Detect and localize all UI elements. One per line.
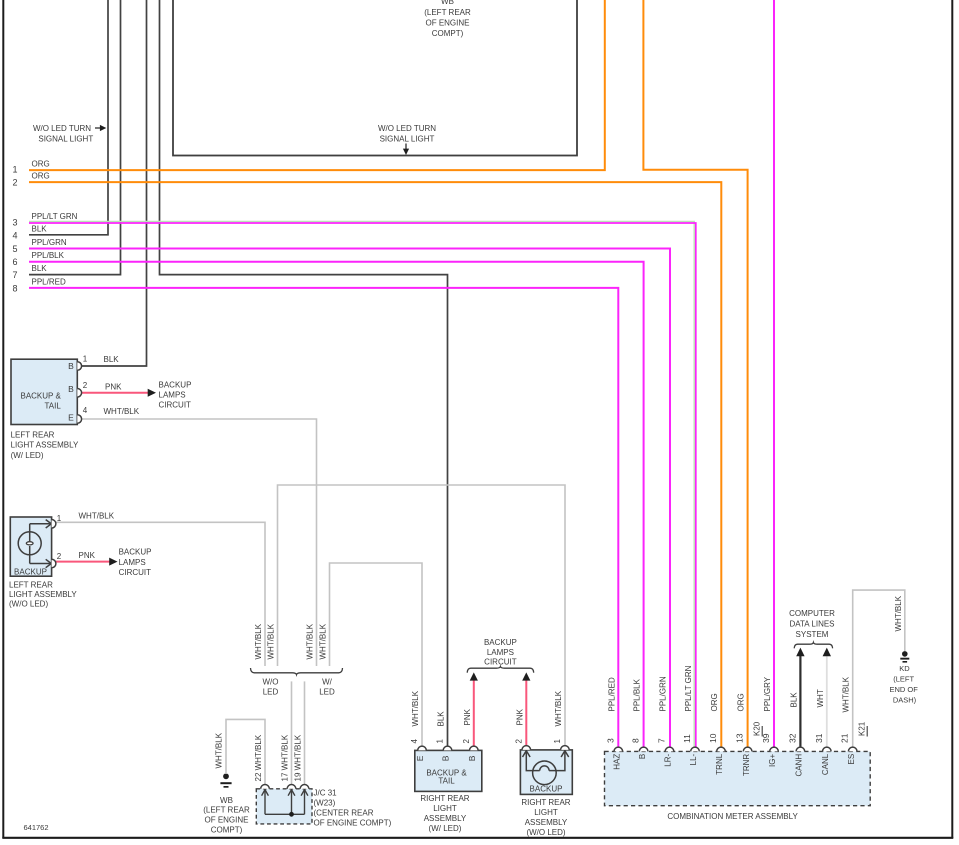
- svg-text:ORG: ORG: [710, 693, 719, 711]
- svg-text:ORG: ORG: [32, 172, 50, 181]
- svg-text:PPL/BLK: PPL/BLK: [633, 678, 642, 711]
- svg-text:(W/ LED): (W/ LED): [429, 824, 462, 833]
- svg-text:CANL: CANL: [821, 753, 830, 775]
- svg-text:HAZ: HAZ: [613, 754, 622, 770]
- svg-text:(CENTER REAR: (CENTER REAR: [314, 809, 374, 818]
- svg-text:BACKUP: BACKUP: [119, 548, 152, 557]
- svg-text:WHT/BLK: WHT/BLK: [894, 595, 903, 631]
- svg-text:COMPUTER: COMPUTER: [789, 609, 835, 618]
- svg-text:BACKUP &: BACKUP &: [20, 391, 61, 400]
- svg-text:ORG: ORG: [737, 693, 746, 711]
- svg-text:WHT: WHT: [816, 689, 825, 707]
- svg-text:WHT/BLK: WHT/BLK: [411, 690, 420, 726]
- svg-text:BLK: BLK: [32, 224, 48, 233]
- svg-text:DATA LINES: DATA LINES: [789, 620, 834, 629]
- svg-text:W/O LED TURN: W/O LED TURN: [33, 124, 91, 133]
- svg-text:3: 3: [605, 738, 615, 743]
- svg-text:2: 2: [514, 739, 523, 744]
- svg-text:BLK: BLK: [789, 692, 798, 708]
- svg-text:BLK: BLK: [104, 355, 120, 364]
- svg-text:CANH: CANH: [795, 754, 804, 777]
- svg-text:KD: KD: [899, 664, 910, 673]
- svg-text:LR-: LR-: [664, 753, 673, 766]
- svg-text:1: 1: [57, 514, 62, 523]
- svg-text:LED: LED: [263, 688, 279, 697]
- svg-text:TAIL: TAIL: [44, 402, 61, 411]
- svg-text:641762: 641762: [24, 823, 49, 832]
- svg-text:LIGHT: LIGHT: [534, 808, 558, 817]
- svg-text:B: B: [467, 755, 477, 761]
- svg-text:LED: LED: [319, 688, 335, 697]
- svg-text:BACKUP: BACKUP: [484, 638, 517, 647]
- svg-text:WHT/BLK: WHT/BLK: [254, 623, 263, 659]
- svg-text:5: 5: [12, 244, 17, 254]
- svg-text:OF ENGINE: OF ENGINE: [204, 815, 248, 824]
- svg-text:(LEFT: (LEFT: [893, 675, 914, 684]
- svg-text:(LEFT REAR: (LEFT REAR: [424, 8, 471, 17]
- svg-text:BLK: BLK: [32, 264, 48, 273]
- svg-text:RIGHT REAR: RIGHT REAR: [420, 794, 469, 803]
- svg-text:2: 2: [12, 178, 17, 188]
- svg-text:17 WHT/BLK: 17 WHT/BLK: [281, 734, 290, 781]
- svg-text:4: 4: [410, 739, 419, 744]
- svg-text:BACKUP: BACKUP: [14, 567, 47, 576]
- svg-text:BLK: BLK: [437, 711, 446, 727]
- svg-text:LAMPS: LAMPS: [119, 558, 146, 567]
- svg-text:TRNR: TRNR: [742, 754, 751, 776]
- svg-text:1: 1: [436, 739, 445, 744]
- svg-text:PPL/GRN: PPL/GRN: [659, 676, 668, 711]
- svg-text:CIRCUIT: CIRCUIT: [159, 400, 192, 409]
- svg-text:WHT/BLK: WHT/BLK: [104, 407, 140, 416]
- svg-text:CIRCUIT: CIRCUIT: [484, 658, 517, 667]
- svg-text:DASH): DASH): [893, 695, 917, 704]
- svg-text:19 WHT/BLK: 19 WHT/BLK: [294, 734, 303, 781]
- svg-text:B: B: [68, 361, 74, 371]
- svg-text:4: 4: [12, 230, 17, 240]
- svg-text:2: 2: [57, 552, 62, 561]
- svg-text:BACKUP: BACKUP: [159, 380, 192, 389]
- svg-text:WHT/BLK: WHT/BLK: [79, 512, 115, 521]
- svg-text:1: 1: [83, 355, 88, 364]
- svg-text:SIGNAL LIGHT: SIGNAL LIGHT: [38, 135, 93, 144]
- svg-text:PNK: PNK: [463, 708, 472, 725]
- svg-text:2: 2: [83, 381, 88, 390]
- svg-text:W/: W/: [322, 677, 333, 686]
- svg-text:E: E: [415, 755, 425, 761]
- svg-text:PPL/RED: PPL/RED: [607, 677, 616, 711]
- svg-text:13: 13: [735, 733, 745, 743]
- svg-text:B: B: [440, 755, 450, 761]
- svg-text:11: 11: [682, 734, 692, 743]
- svg-text:LAMPS: LAMPS: [159, 390, 186, 399]
- svg-text:OF ENGINE: OF ENGINE: [425, 18, 469, 27]
- svg-text:6: 6: [12, 257, 17, 267]
- svg-text:PNK: PNK: [105, 382, 122, 391]
- svg-text:7: 7: [12, 270, 17, 280]
- svg-text:(W23): (W23): [314, 799, 336, 808]
- svg-text:(W/O LED): (W/O LED): [526, 828, 565, 837]
- svg-text:END OF: END OF: [890, 685, 919, 694]
- svg-text:PPL/BLK: PPL/BLK: [32, 251, 65, 260]
- svg-text:LL-: LL-: [689, 753, 698, 765]
- svg-text:22 WHT/BLK: 22 WHT/BLK: [254, 734, 263, 781]
- svg-text:J/C 31: J/C 31: [314, 789, 338, 798]
- svg-text:K21: K21: [858, 721, 867, 736]
- svg-text:LIGHT: LIGHT: [433, 804, 457, 813]
- svg-text:PPL/RED: PPL/RED: [32, 277, 66, 286]
- svg-text:K20: K20: [753, 721, 762, 736]
- svg-text:SYSTEM: SYSTEM: [796, 630, 829, 639]
- svg-text:SIGNAL LIGHT: SIGNAL LIGHT: [380, 135, 435, 144]
- svg-text:(LEFT REAR: (LEFT REAR: [203, 805, 250, 814]
- svg-text:32: 32: [787, 733, 797, 743]
- svg-text:WHT/BLK: WHT/BLK: [215, 732, 224, 768]
- svg-text:7: 7: [657, 738, 667, 743]
- svg-text:ORG: ORG: [32, 160, 50, 169]
- svg-text:E: E: [68, 412, 74, 422]
- svg-text:TRNL: TRNL: [715, 753, 724, 774]
- svg-text:W/O: W/O: [263, 677, 279, 686]
- svg-text:LEFT REAR: LEFT REAR: [11, 430, 55, 439]
- svg-text:LIGHT ASSEMBLY: LIGHT ASSEMBLY: [9, 590, 77, 599]
- svg-text:OF ENGINE COMPT): OF ENGINE COMPT): [314, 819, 392, 828]
- svg-text:(W/ LED): (W/ LED): [11, 451, 44, 460]
- svg-text:PNK: PNK: [515, 708, 524, 725]
- svg-text:COMBINATION METER ASSEMBLY: COMBINATION METER ASSEMBLY: [667, 812, 798, 821]
- svg-text:CIRCUIT: CIRCUIT: [119, 568, 152, 577]
- svg-text:WHT/BLK: WHT/BLK: [306, 623, 315, 659]
- svg-text:LEFT REAR: LEFT REAR: [9, 581, 53, 590]
- svg-text:IG+: IG+: [768, 753, 777, 766]
- svg-text:WHT/BLK: WHT/BLK: [554, 690, 563, 726]
- svg-text:WHT/BLK: WHT/BLK: [319, 623, 328, 659]
- svg-text:21: 21: [840, 733, 850, 743]
- svg-text:PPL/GRY: PPL/GRY: [763, 676, 772, 711]
- svg-text:1: 1: [553, 739, 562, 744]
- svg-text:B: B: [638, 754, 647, 759]
- svg-text:1: 1: [12, 165, 17, 175]
- svg-text:ES: ES: [847, 754, 856, 765]
- svg-text:B: B: [68, 384, 74, 394]
- svg-text:COMPT): COMPT): [432, 29, 464, 38]
- svg-text:WHT/BLK: WHT/BLK: [842, 676, 851, 712]
- svg-text:PPL/LT GRN: PPL/LT GRN: [32, 212, 78, 221]
- svg-text:PNK: PNK: [79, 551, 96, 560]
- svg-text:RIGHT REAR: RIGHT REAR: [521, 798, 570, 807]
- svg-text:4: 4: [83, 406, 88, 415]
- svg-text:ASSEMBLY: ASSEMBLY: [525, 818, 568, 827]
- svg-text:WB: WB: [441, 0, 454, 6]
- svg-text:(W/O LED): (W/O LED): [9, 599, 48, 608]
- svg-text:2: 2: [462, 739, 471, 744]
- svg-text:WHT/BLK: WHT/BLK: [267, 623, 276, 659]
- svg-text:BACKUP: BACKUP: [530, 784, 563, 793]
- svg-text:LIGHT ASSEMBLY: LIGHT ASSEMBLY: [11, 441, 79, 450]
- svg-text:W/O LED TURN: W/O LED TURN: [378, 124, 436, 133]
- svg-text:3: 3: [12, 218, 17, 228]
- svg-text:COMPT): COMPT): [211, 825, 243, 834]
- svg-text:PPL/LT GRN: PPL/LT GRN: [684, 665, 693, 711]
- svg-text:8: 8: [631, 738, 641, 743]
- svg-text:WB: WB: [220, 796, 233, 805]
- svg-text:31: 31: [814, 733, 824, 743]
- svg-text:ASSEMBLY: ASSEMBLY: [424, 814, 467, 823]
- svg-text:LAMPS: LAMPS: [487, 648, 514, 657]
- svg-text:8: 8: [12, 283, 17, 293]
- svg-text:TAIL: TAIL: [438, 776, 455, 785]
- svg-text:10: 10: [708, 733, 718, 743]
- svg-text:PPL/GRN: PPL/GRN: [32, 238, 67, 247]
